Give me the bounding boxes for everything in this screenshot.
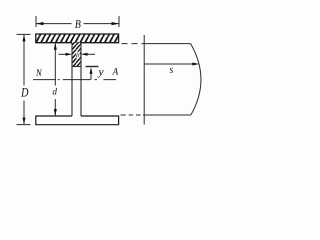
dimension B: ticks (36, 16, 119, 27)
label s (170, 68, 173, 73)
shear diagram top edge (144, 43, 190, 45)
dimension d: arrowheads (54, 43, 57, 50)
dimension D: arrowheads (23, 34, 26, 41)
dimension d: line (54, 44, 56, 116)
dimension b: left arrow (59, 53, 67, 55)
shear stress parabola (191, 44, 201, 115)
label D (21, 88, 28, 97)
dimension D: ticks (17, 34, 31, 124)
hatched web stub above level y (72, 42, 81, 67)
dimension B: arrowheads (36, 22, 44, 25)
projection dash line bottom (flange inner face) (121, 114, 145, 116)
dimension b: right arrow (87, 53, 96, 55)
label y (97, 70, 103, 77)
projection dash line top (flange inner face) (122, 43, 145, 45)
dimension y: arrow (90, 72, 92, 80)
neutral axis N-A dash-dot line (33, 79, 116, 81)
dimension y: extension tick (86, 66, 99, 68)
label N (36, 69, 42, 76)
dimension D: line (23, 35, 25, 124)
flange F1 outline (top flange) (36, 34, 119, 43)
label b (76, 52, 79, 57)
label A (112, 68, 118, 75)
label d (53, 88, 57, 95)
flange F2 outline (bottom flange) (36, 116, 119, 125)
arrow s (144, 63, 194, 65)
web cut line at level y (72, 66, 81, 68)
shear diagram bottom edge (144, 114, 191, 116)
label B (75, 20, 81, 28)
web W outline (72, 43, 81, 116)
dimension B: line (36, 23, 119, 25)
I-beam section: hatched area of top flange (36, 34, 119, 43)
shear diagram axis (143, 35, 145, 125)
